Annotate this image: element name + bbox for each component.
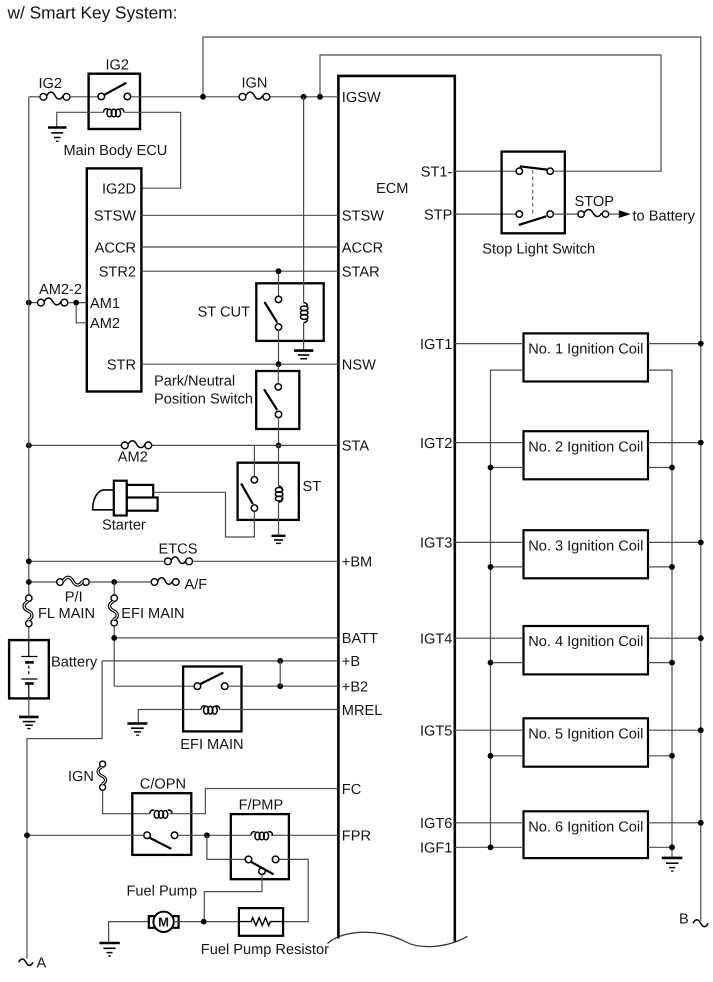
wire ST CUT coil to ground <box>303 323 305 350</box>
ground at MREL coil <box>127 724 147 736</box>
svg-text:ACCR: ACCR <box>342 240 383 256</box>
wire C/OPN coil to FC pin <box>170 789 339 814</box>
svg-text:FC: FC <box>342 782 361 798</box>
relay IG2 coil <box>104 109 125 117</box>
svg-text:EFI MAIN: EFI MAIN <box>180 737 243 753</box>
svg-text:IG2: IG2 <box>39 76 63 92</box>
wire motor to fuel pump node to resistor <box>174 921 239 923</box>
wire coil 1 ground pin to ground bus <box>648 370 672 857</box>
node on ground bus coil 3 <box>669 564 675 570</box>
wire coil 6 ground pin to ground bus <box>648 846 672 848</box>
node junction at EFI MAIN link branch <box>111 579 117 585</box>
wire F/PMP common down to fuel pump node <box>204 875 262 922</box>
wire coil 3 IGF pin to IGF bus <box>491 566 524 568</box>
relay ST box <box>238 463 299 520</box>
terminal A squiggle <box>19 959 33 965</box>
svg-text:EFI MAIN: EFI MAIN <box>121 606 184 622</box>
svg-text:Position Switch: Position Switch <box>154 392 253 408</box>
wire left bus vertical (IG2 feed down to FL MAIN and battery) <box>28 97 30 640</box>
fusible link FL MAIN <box>24 595 32 627</box>
svg-text:IGF1: IGF1 <box>420 841 452 857</box>
wire EFI MAIN link down to BATT wire and +B2 corner <box>113 626 115 686</box>
ECM wavy bottom edge <box>328 932 468 946</box>
wire STA junction down to ST coil <box>278 445 280 486</box>
node junction on STA wire <box>276 443 282 449</box>
wire STOP fuse to battery arrow <box>609 213 620 215</box>
svg-text:IGT5: IGT5 <box>420 724 452 740</box>
fuel pump motor M1 <box>149 912 179 932</box>
svg-text:ECM: ECM <box>376 181 408 197</box>
svg-text:B: B <box>679 912 689 928</box>
wire FPR junction down to F/PMP switch left contact <box>207 835 245 859</box>
P/N switch blade <box>264 389 277 410</box>
relay IG2 switch contacts <box>98 93 105 100</box>
battery internal cells <box>21 640 37 698</box>
relay F/PMP common contact <box>259 868 266 875</box>
svg-text:IGN: IGN <box>242 76 268 92</box>
svg-text:Fuel Pump Resistor: Fuel Pump Resistor <box>201 942 329 958</box>
wire AM2-2 fuse to AM1 pin <box>68 302 87 304</box>
svg-text:IGT3: IGT3 <box>420 536 452 552</box>
svg-text:No. 6 Ignition Coil: No. 6 Ignition Coil <box>528 819 643 835</box>
wire MREL: ground to coil to ECM <box>138 710 338 723</box>
svg-text:Park/Neutral: Park/Neutral <box>154 374 235 390</box>
wire coil 4 IGF pin to IGF bus <box>491 662 524 664</box>
wire battery negative to ground <box>28 698 30 716</box>
arrow to Battery <box>619 210 631 218</box>
node junction x320 on IGSW wire <box>317 94 323 100</box>
wire IGT2 ECM to coil 2 <box>455 442 524 444</box>
wire branch up from node at x203 to top rail to right bus <box>203 37 701 921</box>
wire P/N switch bottom contact to STA wire <box>278 418 280 446</box>
svg-text:A/F: A/F <box>185 577 208 593</box>
fuel pump resistor R1 box <box>239 908 283 936</box>
svg-text:STR2: STR2 <box>99 265 136 281</box>
wire fuel pump motor left to ground <box>109 922 149 942</box>
wire left bus top corner to fuse IG2 <box>29 96 40 98</box>
wire STR2 node down to ST CUT switch top contact <box>278 271 280 296</box>
svg-text:No. 2 Ignition Coil: No. 2 Ignition Coil <box>528 439 643 455</box>
svg-text:ST1-: ST1- <box>421 165 453 181</box>
relay EFI MAIN coil <box>201 706 220 714</box>
wire coil 5 to +B rail <box>648 729 701 731</box>
wire coil 5 IGF pin to IGF bus <box>491 755 524 757</box>
relay ST switch contacts <box>251 477 257 483</box>
relay EFI MAIN switch blade <box>200 673 223 684</box>
node on +B rail IGT6 <box>698 820 704 826</box>
svg-text:w/ Smart Key System:: w/ Smart Key System: <box>7 3 178 23</box>
main body ECU connector box <box>87 168 142 391</box>
svg-text:IGT1: IGT1 <box>420 337 452 353</box>
P/N switch contacts <box>275 384 281 390</box>
svg-text:AM2: AM2 <box>90 316 120 332</box>
wire ACCR to ECM <box>141 246 338 248</box>
node junction at BATT <box>111 635 117 641</box>
ground at coil ground bus <box>662 858 683 871</box>
svg-text:AM2-2: AM2-2 <box>39 282 82 298</box>
wire +B2 from EFI link bus to ECM <box>114 685 338 687</box>
wire left bus to AM2 fuse to ECM STA <box>29 444 339 446</box>
ignition coil No.5 box <box>524 718 649 766</box>
svg-text:No. 3 Ignition Coil: No. 3 Ignition Coil <box>528 538 643 554</box>
svg-text:FPR: FPR <box>342 829 371 845</box>
ground under IG2 relay <box>48 128 67 142</box>
node junction FPR branch <box>204 832 210 838</box>
node on IGF bus coil 3 <box>488 564 494 570</box>
svg-text:+BM: +BM <box>342 555 372 571</box>
svg-text:AM1: AM1 <box>90 296 120 312</box>
fuse AM2 <box>121 441 151 449</box>
fuse ETCS <box>165 557 193 565</box>
svg-text:No. 4 Ignition Coil: No. 4 Ignition Coil <box>528 634 643 650</box>
node on +B rail IGT1 <box>698 341 704 347</box>
wire A/F junction down to EFI MAIN link <box>113 582 115 595</box>
wire ST switch bottom contact to starter <box>153 492 254 537</box>
wire STA wire branch down to ST switch top contact <box>253 445 255 476</box>
fusible link EFI MAIN <box>110 595 118 626</box>
node junction x203 on IGSW wire <box>200 94 206 100</box>
svg-text:ST CUT: ST CUT <box>198 305 251 321</box>
relay F/PMP box <box>231 814 289 879</box>
svg-text:Stop Light Switch: Stop Light Switch <box>482 241 595 257</box>
node junction fuel pump <box>201 919 207 925</box>
svg-text:STAR: STAR <box>342 265 380 281</box>
node junction on left bus at P/I <box>26 579 32 585</box>
svg-text:M: M <box>158 915 169 930</box>
node junction on A bus at FPR <box>24 832 30 838</box>
wire coil 2 ground pin to ground bus <box>648 467 672 469</box>
svg-text:STSW: STSW <box>94 209 136 225</box>
svg-text:No. 1 Ignition Coil: No. 1 Ignition Coil <box>528 342 643 358</box>
relay EFI MAIN box <box>183 667 241 732</box>
node junction +B2 at x280 <box>277 683 283 689</box>
resistor zigzag <box>239 918 283 926</box>
fuse IGN <box>239 92 270 100</box>
starter motor symbol <box>93 481 158 516</box>
node on ground bus coil 5 <box>669 753 675 759</box>
node on IGF bus coil 2 <box>488 465 494 471</box>
wire NSW node to P/N switch top contact <box>277 364 279 384</box>
ground under ST coil <box>272 536 286 544</box>
relay IG2 switch blade <box>104 83 126 95</box>
wire coil 1 to +B rail <box>648 343 701 345</box>
relay F/PMP switch contacts <box>245 856 252 863</box>
node on +B rail IGT4 <box>698 635 704 641</box>
wire coil 4 ground pin to ground bus <box>648 662 672 664</box>
wire STP to switch <box>455 213 516 215</box>
svg-text:IGN: IGN <box>68 769 94 785</box>
relay ST coil (vertical) <box>275 486 283 502</box>
wire IGT4 ECM to coil 4 <box>455 637 524 639</box>
wire coil 4 to +B rail <box>648 637 701 639</box>
fusible link IGN <box>98 761 106 790</box>
node on +B rail IGT2 <box>698 440 704 446</box>
wire IGT3 ECM to coil 3 <box>455 541 524 543</box>
relay ST CUT coil (vertical) <box>300 303 308 323</box>
relay F/PMP switch blade <box>251 862 273 874</box>
wire ST coil to ground <box>278 502 280 534</box>
stop light switch top blade <box>520 166 547 169</box>
ignition coil No.6 box <box>524 811 649 858</box>
fuse A/F <box>151 578 179 586</box>
svg-text:IG2: IG2 <box>106 58 130 74</box>
wire left bus to ETCS fuse to ECM +BM <box>29 560 339 562</box>
svg-text:No. 5 Ignition Coil: No. 5 Ignition Coil <box>528 726 643 742</box>
wire coil 2 IGF pin to IGF bus <box>491 467 524 469</box>
svg-text:A: A <box>37 956 47 972</box>
svg-text:Fuel Pump: Fuel Pump <box>127 883 198 899</box>
svg-text:IGT4: IGT4 <box>420 632 452 648</box>
wire IGN link to C/OPN coil <box>103 790 150 814</box>
wire IGF1 ECM to coil 6 <box>455 846 524 848</box>
relay ST CUT switch contacts <box>275 296 281 302</box>
node on IGF bus at IGF1 <box>488 844 494 850</box>
wire fuse IG2 to relay IG2 <box>70 96 98 98</box>
wire FPR: C/OPN switch to F/PMP coil to ECM <box>178 834 339 836</box>
svg-text:BATT: BATT <box>342 631 378 647</box>
ECM box U1 <box>338 76 454 942</box>
wire P/I link to A/F fuse <box>89 581 151 583</box>
wire relay IG2 coil left to ground <box>57 112 104 126</box>
node junction on left bus at ETCS <box>26 558 32 564</box>
svg-text:F/PMP: F/PMP <box>239 797 284 813</box>
park/neutral position switch box <box>256 371 299 429</box>
node on ground bus coil 4 <box>669 660 675 666</box>
wire relay IG2 contact to IGN fuse and IGSW pin <box>131 96 339 98</box>
svg-text:STOP: STOP <box>575 194 614 210</box>
node on +B rail IGT5 <box>698 727 704 733</box>
wire ST CUT switch bottom contact to NSW wire <box>278 330 280 364</box>
svg-text:ETCS: ETCS <box>159 542 198 558</box>
svg-text:STR: STR <box>107 358 136 374</box>
wire left bus to P/I link <box>29 581 57 583</box>
relay ST CUT box <box>256 283 323 341</box>
node on IGF bus coil 5 <box>488 753 494 759</box>
wire STSW to ECM <box>141 214 338 216</box>
relay IG2 box <box>89 74 140 129</box>
relay ST CUT switch blade <box>265 302 278 323</box>
svg-text:Starter: Starter <box>102 518 146 534</box>
fusible link P/I <box>57 577 89 585</box>
node junction +B at x280 <box>277 658 283 664</box>
relay ST switch blade <box>241 484 253 504</box>
wire FPR: A bus to C/OPN switch <box>27 834 144 836</box>
svg-text:ST: ST <box>303 479 322 495</box>
terminal B squiggle <box>693 920 708 927</box>
battery box <box>9 640 49 698</box>
relay F/PMP coil <box>251 832 273 840</box>
wire F/PMP right contact to resistor right side <box>279 859 308 921</box>
wire coil 3 to +B rail <box>648 541 701 543</box>
wire coil 1 IGF pin to IGF bus <box>491 370 524 847</box>
svg-text:IGT2: IGT2 <box>420 436 452 452</box>
node junction on left bus at AM2-2 <box>26 300 32 306</box>
wire IGSW node down to ST CUT coil <box>303 97 305 303</box>
wire IGT5 ECM to coil 5 <box>455 729 524 731</box>
wire ST1- to switch <box>455 170 516 172</box>
ignition coil No.1 box <box>524 333 649 381</box>
svg-text:FL MAIN: FL MAIN <box>38 606 95 622</box>
relay C/OPN coil <box>150 810 172 818</box>
svg-text:Main Body ECU: Main Body ECU <box>64 143 168 159</box>
wire coil 2 to +B rail <box>648 442 701 444</box>
svg-text:STSW: STSW <box>342 209 384 225</box>
svg-text:AM2: AM2 <box>118 450 148 466</box>
svg-text:+B2: +B2 <box>342 680 368 696</box>
wire BATT to ECM <box>114 637 338 639</box>
node on +B rail IGT3 <box>698 540 704 546</box>
wire switch to STOP fuse <box>553 213 578 215</box>
svg-text:ACCR: ACCR <box>95 240 136 256</box>
wire coil 5 ground pin to ground bus <box>648 755 672 757</box>
stop light switch bottom blade <box>519 216 547 225</box>
node on ground bus coil 2 <box>669 465 675 471</box>
stop light switch dashed link <box>532 170 534 217</box>
wire STR to ECM NSW <box>141 363 338 365</box>
wire tie between +B and +B2 <box>279 661 281 686</box>
stop light switch contacts bottom <box>516 211 522 217</box>
ground at fuel pump <box>99 943 119 956</box>
node junction on NSW wire <box>276 361 282 367</box>
stop light switch box <box>502 152 565 234</box>
ignition coil No.2 box <box>524 431 649 479</box>
wire +B to ECM <box>102 660 338 662</box>
relay EFI MAIN switch contacts <box>194 683 201 690</box>
svg-text:IGT6: IGT6 <box>420 816 452 832</box>
wire STR2 to ECM STAR <box>141 270 338 272</box>
relay C/OPN switch contacts <box>144 832 151 839</box>
wire relay IG2 coil right to IG2D pin <box>124 112 181 188</box>
svg-text:C/OPN: C/OPN <box>140 776 186 792</box>
svg-text:P/I: P/I <box>65 590 83 606</box>
node on ground bus coil 6 <box>669 844 675 850</box>
svg-text:IG2D: IG2D <box>102 181 136 197</box>
svg-text:STP: STP <box>424 207 452 223</box>
svg-text:MREL: MREL <box>342 703 383 719</box>
node junction on left bus at AM2 <box>26 443 32 449</box>
svg-text:NSW: NSW <box>342 358 376 374</box>
wire IGT1 ECM to coil 1 <box>455 343 524 345</box>
svg-text:STA: STA <box>342 439 370 455</box>
fuse IG2 <box>40 92 70 100</box>
ignition coil No.3 box <box>524 530 649 578</box>
node on IGF bus coil 4 <box>488 660 494 666</box>
wire branch to AM2 pin <box>76 303 87 323</box>
svg-text:to Battery: to Battery <box>633 208 696 224</box>
wire branch up from node x320 to second rail down to stop light switch <box>320 55 661 171</box>
fuse AM2-2 <box>38 298 68 306</box>
ignition coil No.4 box <box>524 626 649 674</box>
node junction x303.6 on IGSW wire <box>301 94 307 100</box>
relay C/OPN switch blade <box>150 838 171 849</box>
svg-text:+B: +B <box>342 654 360 670</box>
stop light switch contacts top <box>516 168 522 174</box>
svg-text:IGSW: IGSW <box>342 90 381 106</box>
fuse STOP <box>578 210 609 218</box>
wire coil 3 ground pin to ground bus <box>648 566 672 568</box>
svg-text:Battery: Battery <box>51 655 98 671</box>
wire coil 6 to +B rail <box>648 822 701 824</box>
node junction at AM1/AM2 branch <box>73 300 79 306</box>
node junction on STAR wire <box>276 268 282 274</box>
wire left bus to AM2-2 fuse <box>29 302 38 304</box>
relay C/OPN box <box>132 793 191 855</box>
wire IGT6 ECM to coil 6 <box>455 822 524 824</box>
ground under ST CUT coil <box>294 351 313 359</box>
wire +B corner down and across to A bus <box>27 661 102 959</box>
ground under battery <box>19 717 38 729</box>
